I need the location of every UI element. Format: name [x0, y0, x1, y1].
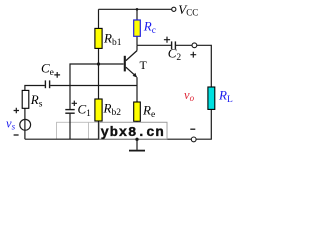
resistor Rb1: [95, 28, 102, 48]
wire Rb2 bottom lead: [98, 121, 100, 139]
node dot rail-Rc: [136, 8, 139, 11]
wire base lead with C1 riser corner: [70, 64, 124, 109]
node dot ground rail: [135, 138, 138, 141]
capacitor Ce plates: [45, 80, 49, 88]
minus sign vs: [14, 134, 19, 136]
resistor Rs: [22, 90, 29, 108]
resistor Rb2: [95, 99, 102, 121]
wire Rc bottom lead to collector node: [136, 36, 138, 45]
wire Rs top lead and input corner: [25, 86, 45, 91]
terminal output minus: [191, 137, 196, 142]
capacitor C1 plates: [65, 110, 74, 114]
plus sign vo: [190, 52, 196, 58]
node dot ground rail (over watermark): [135, 138, 138, 141]
wire Re bottom lead: [136, 121, 138, 139]
wire output terminal to right corner: [197, 45, 212, 87]
svg-text:T: T: [140, 58, 148, 72]
source vs circle: [20, 119, 31, 130]
wire emitter feed (Ce to emitter node): [50, 85, 137, 87]
plus sign Ce: [54, 72, 60, 78]
svg-text:ybx8.cn: ybx8.cn: [101, 125, 165, 141]
wire RL bottom lead: [196, 109, 211, 139]
resistor RL: [208, 87, 215, 109]
minus sign vo: [190, 128, 195, 130]
wire collector vertical stub: [136, 45, 138, 50]
terminal VCC: [172, 7, 176, 11]
node dot base-divider: [97, 62, 100, 65]
capacitor C2 plates: [172, 41, 176, 49]
terminal output plus: [192, 43, 197, 48]
watermark table border (transparent cells): [57, 122, 168, 139]
resistor Rc: [134, 20, 141, 36]
watermark text cell ybx8.cn: [99, 122, 167, 141]
wire emitter vertical stub: [136, 77, 138, 85]
wire C2 to output terminal: [176, 44, 192, 46]
plus sign C2: [164, 37, 170, 43]
wire Rb1-Rb2 vertical (base divider): [98, 48, 100, 99]
wire emitter node to Re: [136, 86, 138, 103]
wire Rc top lead: [136, 9, 138, 20]
wire C1 bottom lead: [69, 113, 71, 139]
wire vs branch (Rs bottom through source circle to rail): [24, 108, 26, 139]
ground: [129, 139, 145, 150]
wire VCC top rail: [99, 8, 172, 10]
transistor T: [125, 51, 137, 78]
wire Rb1 top lead: [98, 9, 100, 28]
resistor Re: [134, 102, 141, 121]
wire collector node to C2: [137, 44, 171, 46]
plus sign C1: [72, 101, 77, 106]
wire bottom rail: [25, 138, 192, 140]
plus sign vs: [14, 108, 19, 113]
